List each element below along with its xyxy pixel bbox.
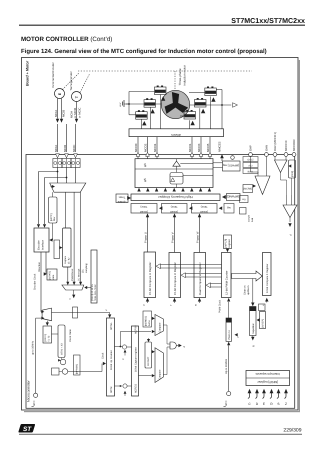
svg-text:[MCRB]: [MCRB]	[244, 188, 253, 191]
svg-text:sample: sample	[248, 214, 251, 222]
svg-text:MTIM ÷ XX: MTIM ÷ XX	[61, 343, 64, 355]
svg-text:Time): Time)	[171, 205, 178, 209]
svg-text:or MCIC: or MCIC	[77, 108, 81, 118]
svg-text:Interface: Interface	[42, 239, 45, 250]
svg-text:229/309: 229/309	[283, 428, 301, 434]
svg-text:Compare: Compare	[158, 369, 161, 380]
svg-text:+HV: +HV	[119, 102, 122, 107]
svg-text:12-bit Compare 0 Register: 12-bit Compare 0 Register	[266, 264, 269, 293]
svg-text:[MPRSR]: [MPRSR]	[76, 364, 79, 374]
svg-text:PWM CK: PWM CK	[228, 330, 231, 340]
svg-text:w: w	[195, 304, 198, 306]
svg-text:R: R	[253, 345, 256, 347]
svg-text:Phase U: Phase U	[144, 232, 148, 243]
svg-text:MCIA: MCIA	[54, 110, 58, 117]
svg-text:MCIB: MCIB	[63, 145, 67, 152]
svg-text:[MPWME]: [MPWME]	[227, 195, 239, 198]
svg-text:High Frequency Chopper: High Frequency Chopper	[158, 195, 193, 199]
svg-text:MCCREF: MCCREF	[292, 139, 296, 151]
svg-text:E: E	[263, 402, 265, 406]
svg-text:MZPRV: MZPRV	[135, 325, 138, 334]
svg-text:MCIA: MCIA	[54, 145, 58, 152]
svg-text:PWM Clock: PWM Clock	[219, 299, 222, 313]
svg-text:(Dead: (Dead	[140, 210, 148, 214]
svg-text:Interrupt requests: Interrupt requests	[255, 372, 280, 376]
svg-text:Z: Z	[285, 402, 287, 406]
svg-text:ratio: ratio	[52, 274, 55, 279]
svg-text:MOTOR CONTROLLER (Cont’d): MOTOR CONTROLLER (Cont’d)	[21, 36, 112, 43]
svg-text:MCO4: MCO4	[153, 143, 157, 152]
svg-text:Tmax: Tmax	[118, 195, 125, 198]
svg-text:induction motor: induction motor	[183, 65, 187, 86]
svg-text:NMCES: NMCES	[218, 141, 222, 152]
svg-text:MCCFI0: MCCFI0	[284, 140, 288, 151]
svg-text:15-bit Compare U Register: 15-bit Compare U Register	[148, 262, 152, 295]
svg-text:(ZC: (ZC	[82, 269, 85, 273]
svg-text:[MISR] register: [MISR] register	[257, 380, 278, 384]
svg-text:Phase W: Phase W	[196, 231, 200, 243]
svg-text:φ6: φ6	[143, 163, 147, 167]
svg-text:PWM Reset: PWM Reset	[71, 268, 74, 281]
svg-text:OAN: OAN	[265, 145, 269, 151]
svg-text:Time): Time)	[201, 205, 208, 209]
svg-text:f/1 f/2: f/1 f/2	[48, 335, 51, 341]
svg-text:OAP: OAP	[249, 145, 253, 151]
svg-text:15-bit Compare V Register: 15-bit Compare V Register	[173, 262, 177, 295]
svg-text:ST7MC1xx/ST7MC2xx: ST7MC1xx/ST7MC2xx	[231, 17, 305, 25]
svg-text:Compare: Compare	[158, 322, 161, 333]
svg-text:TES1 50% TES2: TES1 50% TES2	[94, 284, 97, 301]
svg-text:C: C	[122, 358, 125, 360]
svg-text:Time): Time)	[140, 205, 147, 209]
svg-text:Microcontroller: Microcontroller	[27, 379, 31, 402]
svg-text:Board + Motor: Board + Motor	[26, 60, 30, 86]
svg-text:Direction: Direction	[38, 262, 41, 272]
svg-text:buffer: buffer	[148, 320, 151, 326]
svg-text:(Dead: (Dead	[170, 210, 178, 214]
svg-text:Capture: Capture	[64, 255, 67, 264]
svg-text:[ZS0:3] 02:10 5%: [ZS0:3] 02:10 5%	[91, 284, 94, 301]
svg-text:16-bit Capture register: 16-bit Capture register	[135, 347, 138, 372]
svg-text:[MREP]: [MREP]	[262, 319, 265, 328]
svg-text:drivers: drivers	[171, 133, 181, 137]
svg-text:Phase V: Phase V	[171, 232, 175, 243]
svg-text:MCO2: MCO2	[143, 143, 147, 152]
svg-text:MZREG: MZREG	[135, 384, 138, 393]
svg-text:[MZREG]: [MZREG]	[145, 316, 148, 326]
svg-text:Up to 16MHz: Up to 16MHz	[225, 358, 228, 374]
svg-text:[CK0:1]: [CK0:1]	[44, 333, 47, 341]
svg-text:Three-phase: Three-phase	[178, 68, 182, 85]
svg-text:register: register	[228, 239, 231, 248]
svg-text:Figure 124. General view of th: Figure 124. General view of the MTC conf…	[21, 48, 267, 55]
svg-text:[CFR]: [CFR]	[291, 171, 294, 177]
svg-text:OA1Z: OA1Z	[247, 158, 254, 161]
svg-text:ZC Interrupt: ZC Interrupt	[78, 268, 81, 281]
svg-text:16-bit Up Counter: 16-bit Up Counter	[110, 350, 113, 370]
svg-text:[MZTF]: [MZTF]	[50, 213, 53, 221]
svg-text:Encoder: Encoder	[38, 240, 41, 250]
svg-text:Encoder Clock: Encoder Clock	[34, 273, 37, 290]
svg-text:Clock Ratio: Clock Ratio	[69, 329, 72, 342]
svg-text:Incremental Encoder: Incremental Encoder	[51, 62, 55, 88]
svg-text:ST: ST	[23, 426, 32, 433]
svg-text:Dual Compare W Register: Dual Compare W Register	[198, 262, 202, 295]
svg-text:tZ / tU: tZ / tU	[67, 257, 70, 264]
svg-text:filter: filter	[53, 216, 56, 221]
svg-text:MCOMP: MCOMP	[147, 356, 150, 366]
svg-text:S: S	[277, 402, 279, 406]
svg-text:MCIC: MCIC	[72, 145, 76, 152]
svg-text:MCO3: MCO3	[197, 143, 201, 152]
svg-text:sampling): sampling)	[85, 263, 88, 273]
svg-text:up to 16MHz: up to 16MHz	[32, 340, 35, 355]
svg-text:Repetition: Repetition	[252, 323, 255, 334]
svg-text:MCO5: MCO5	[206, 143, 210, 152]
svg-text:MTIM: MTIM	[110, 387, 113, 393]
svg-text:[MPHST] reg: [MPHST] reg	[222, 164, 239, 168]
svg-text:Update: Update	[117, 200, 126, 203]
svg-text:φ5: φ5	[143, 178, 147, 182]
svg-text:OAZ (MCCFI1): OAZ (MCCFI1)	[273, 132, 277, 151]
svg-text:up/down: up/down	[247, 285, 250, 295]
svg-text:MCO0: MCO0	[134, 143, 138, 152]
svg-text:MTIML: MTIML	[110, 322, 113, 330]
svg-text:Clock: Clock	[102, 352, 105, 359]
svg-text:reg: reg	[227, 206, 231, 209]
svg-text:A12: A12	[248, 164, 253, 167]
svg-text:MCIB: MCIB	[62, 110, 66, 117]
svg-text:(Dead: (Dead	[200, 210, 208, 214]
svg-text:MCO1: MCO1	[188, 143, 192, 152]
svg-text:12-bit PWM Counter: 12-bit PWM Counter	[225, 271, 228, 295]
